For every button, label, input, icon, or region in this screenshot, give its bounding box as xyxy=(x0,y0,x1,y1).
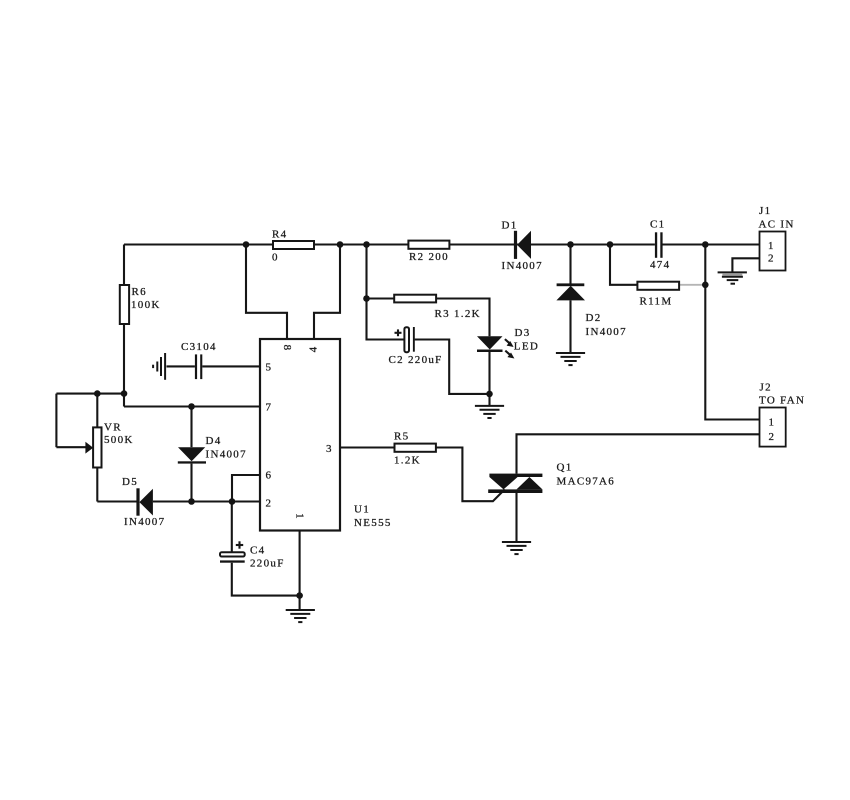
svg-text:C1: C1 xyxy=(650,219,665,231)
wire D2 top lead xyxy=(569,245,571,284)
svg-text:1: 1 xyxy=(768,240,775,252)
junction C4 top on pin2 wire xyxy=(229,498,236,505)
wire VR branch vertical xyxy=(55,394,57,448)
wire VR bottom lead xyxy=(96,468,98,502)
resistor R1 xyxy=(637,282,679,308)
svg-text:8: 8 xyxy=(281,345,293,352)
diode D2 xyxy=(556,283,627,338)
wire R1 branch xyxy=(610,245,637,285)
junction C2 right / LED cathode node xyxy=(486,391,493,398)
triac Q1 xyxy=(488,462,615,494)
svg-text:100K: 100K xyxy=(131,299,161,311)
svg-text:0: 0 xyxy=(272,252,279,264)
resistor R2 xyxy=(408,241,449,263)
wire D2 bottom lead xyxy=(569,300,571,352)
junction D4 cathode on pin2 wire xyxy=(188,498,195,505)
junction on top rail at J2 rail xyxy=(702,241,709,248)
ground under J1 xyxy=(718,272,747,283)
wire J1 pin2 to ground xyxy=(732,258,760,272)
svg-text:D1: D1 xyxy=(502,219,518,231)
junction on top rail at pin4 branch xyxy=(337,241,344,248)
wire R1 right gray segment xyxy=(679,284,705,286)
wire J2 pin2 to triac MT2 xyxy=(517,434,760,473)
resistor R6 xyxy=(120,285,161,324)
junction C4 bottom / pin1 node xyxy=(296,592,303,599)
svg-text:IN4007: IN4007 xyxy=(502,260,543,272)
svg-text:4: 4 xyxy=(308,346,320,353)
junction D4 anode on pin7 wire xyxy=(188,403,195,410)
LED D3 xyxy=(477,327,539,359)
wire C4 top lead xyxy=(231,502,233,553)
svg-text:Q1: Q1 xyxy=(557,462,573,474)
wire C2 right lead xyxy=(415,340,490,394)
resistor R3 xyxy=(394,295,481,320)
IC U1 NE555 timer xyxy=(260,339,392,531)
svg-text:R6: R6 xyxy=(132,286,147,298)
svg-text:R11M: R11M xyxy=(640,296,673,308)
junction R1 right on J2 rail xyxy=(702,282,709,289)
wire rail to J2 pin1 xyxy=(705,245,759,420)
wire VR wiper lead xyxy=(56,446,85,448)
svg-text:7: 7 xyxy=(266,402,273,414)
junction on top rail at pin8 branch xyxy=(243,241,250,248)
junction on top rail at R3 branch xyxy=(363,241,370,248)
wire VR top lead xyxy=(96,394,98,428)
diode D1 xyxy=(502,219,543,271)
wire C2 left lead xyxy=(367,299,405,340)
ground left of C3 xyxy=(153,353,165,380)
wire D4 bottom lead xyxy=(190,464,192,502)
svg-text:2: 2 xyxy=(769,431,776,443)
svg-text:220uF: 220uF xyxy=(250,558,285,570)
junction on top rail at R1 branch xyxy=(607,241,614,248)
wire VR branch horizontal xyxy=(56,393,124,395)
svg-text:J1: J1 xyxy=(759,205,771,217)
wire pin 1 to ground xyxy=(299,531,301,611)
connector J2 xyxy=(759,382,805,447)
wire D4 top lead xyxy=(190,407,192,448)
svg-text:MAC97A6: MAC97A6 xyxy=(557,476,616,488)
wire C4 bottom lead to pin1 node xyxy=(232,563,300,596)
wire pin 3 to R5 xyxy=(340,446,394,448)
capacitor C4 xyxy=(220,541,285,569)
wire R3 left lead xyxy=(367,297,395,299)
svg-text:J2: J2 xyxy=(760,382,772,394)
junction on top rail at D2 branch xyxy=(567,241,574,248)
svg-text:AC IN: AC IN xyxy=(759,219,795,231)
ground under LED D3 xyxy=(475,406,504,418)
wire R5 to gate xyxy=(435,448,505,502)
ground under D2 xyxy=(556,353,585,365)
wire pin 2 left of D5 xyxy=(97,500,137,502)
ground under pin 1 / C4 xyxy=(286,610,315,622)
wire pin 6 jog xyxy=(232,475,260,502)
svg-text:C2 220uF: C2 220uF xyxy=(389,354,443,366)
svg-text:D4: D4 xyxy=(206,435,222,447)
wire LED cathode to ground xyxy=(488,350,490,405)
junction R3/C2 branch node xyxy=(363,295,370,302)
svg-text:D5: D5 xyxy=(122,476,138,488)
wire pin 5 right of C3 xyxy=(202,365,260,367)
svg-text:U1: U1 xyxy=(354,504,370,516)
wire R3 branch vertical xyxy=(365,245,367,299)
capacitor C3 xyxy=(181,341,217,379)
svg-text:500K: 500K xyxy=(104,434,134,446)
resistor R5 xyxy=(394,431,436,467)
svg-text:R3 1.2K: R3 1.2K xyxy=(435,308,481,320)
capacitor C2 xyxy=(389,327,443,366)
svg-text:IN4007: IN4007 xyxy=(124,516,165,528)
ground under Q1 xyxy=(502,542,531,554)
capacitor C1 xyxy=(650,219,670,271)
svg-text:2: 2 xyxy=(768,253,775,265)
potentiometer VR xyxy=(85,422,133,468)
wire R3 right lead to LED xyxy=(436,299,489,337)
diode D4 xyxy=(178,435,247,464)
svg-text:VR: VR xyxy=(104,422,122,434)
junction VR top node xyxy=(94,390,101,397)
diode D5 xyxy=(122,476,165,528)
svg-text:6: 6 xyxy=(266,470,273,482)
wire left rail down to pin7 xyxy=(123,245,125,407)
wire pin 8 feed xyxy=(246,245,287,340)
wire pin 4 feed xyxy=(314,245,340,340)
svg-text:R4: R4 xyxy=(272,229,287,241)
svg-text:474: 474 xyxy=(650,259,670,271)
svg-text:3: 3 xyxy=(326,443,333,455)
svg-text:1: 1 xyxy=(294,513,306,520)
svg-text:R5: R5 xyxy=(394,431,409,443)
junction left rail / VR branch xyxy=(121,390,128,397)
wire top rail right of C1 xyxy=(663,243,760,245)
svg-text:D3: D3 xyxy=(515,327,531,339)
svg-text:TO FAN: TO FAN xyxy=(759,394,805,406)
svg-text:C3104: C3104 xyxy=(181,341,217,353)
wire pin 2 right of D5 xyxy=(153,500,260,502)
svg-text:D2: D2 xyxy=(586,312,602,324)
svg-text:IN4007: IN4007 xyxy=(586,326,627,338)
svg-text:R2 200: R2 200 xyxy=(409,251,449,263)
svg-text:1.2K: 1.2K xyxy=(394,455,421,467)
svg-text:1: 1 xyxy=(769,417,776,429)
wire top rail left of C1 xyxy=(124,243,655,245)
wire pin 5 left of C3 xyxy=(167,365,195,367)
svg-text:LED: LED xyxy=(514,341,539,353)
svg-text:C4: C4 xyxy=(250,545,265,557)
wire triac MT1 to ground xyxy=(515,493,517,542)
connector J1 xyxy=(759,205,795,271)
svg-text:5: 5 xyxy=(266,362,273,374)
svg-text:NE555: NE555 xyxy=(354,517,392,529)
wire pin 7 xyxy=(124,405,260,407)
resistor R4 xyxy=(272,229,314,264)
svg-text:2: 2 xyxy=(266,497,273,509)
svg-text:IN4007: IN4007 xyxy=(206,449,247,461)
